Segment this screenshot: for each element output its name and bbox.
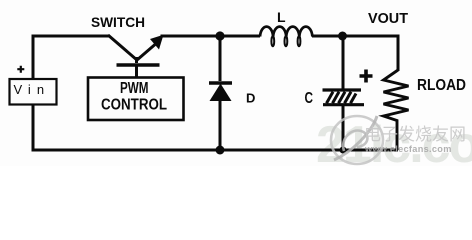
svg-text:www.elecfans.com: www.elecfans.com (364, 144, 452, 154)
svg-text:RLOAD: RLOAD (417, 77, 466, 94)
svg-text:CONTROL: CONTROL (101, 97, 167, 114)
svg-text:Vin: Vin (14, 82, 51, 97)
svg-text:C: C (305, 90, 314, 107)
svg-text:L: L (277, 9, 286, 25)
svg-text:D: D (246, 91, 255, 106)
svg-text:SWITCH: SWITCH (91, 15, 145, 30)
svg-text:电子发烧友网: 电子发烧友网 (364, 125, 466, 144)
svg-text:PWM: PWM (120, 80, 149, 97)
svg-text:VOUT: VOUT (368, 11, 408, 27)
